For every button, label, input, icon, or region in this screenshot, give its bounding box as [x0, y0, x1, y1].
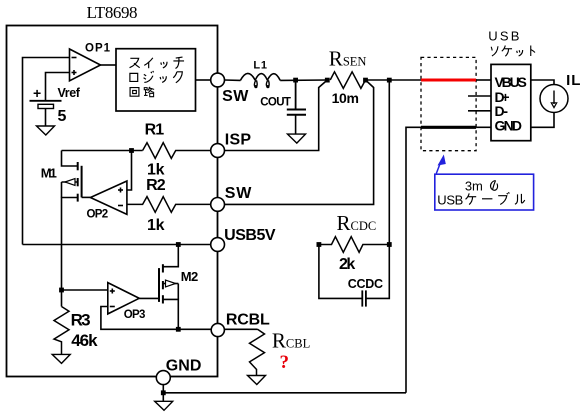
svg-text:2k: 2k [339, 256, 355, 273]
svg-text:CCDC: CCDC [348, 277, 383, 291]
capacitor COUT [287, 80, 306, 134]
svg-text:1k: 1k [147, 162, 165, 179]
svg-text:R3: R3 [71, 310, 91, 329]
label ソケット (drawn glyphs) [491, 46, 535, 57]
ground under COUT [288, 134, 306, 143]
black GND cable wire (thick) [421, 126, 476, 129]
blue callout box 3mのUSBケーブル [435, 174, 534, 210]
svg-text:?: ? [280, 352, 290, 373]
svg-text:IL: IL [566, 72, 580, 89]
resistor R1 [143, 143, 211, 159]
wire: OP1 plus input to Vref [46, 73, 70, 101]
op-amp OP2 (points left) [90, 181, 127, 214]
wire VBUS cable to socket [476, 79, 491, 81]
svg-text:OP2: OP2 [87, 209, 109, 221]
svg-text:Vref: Vref [58, 86, 81, 100]
svg-text:USB: USB [437, 193, 463, 208]
node SW (second) [211, 198, 225, 212]
svg-text:RCBL: RCBL [226, 312, 270, 329]
wire OP3 output to M2 gate [139, 297, 159, 299]
svg-text:R1: R1 [145, 122, 165, 139]
USB socket box [491, 64, 531, 140]
svg-text:M2: M2 [181, 269, 199, 284]
resistor RCBL (cable resistance) [250, 329, 265, 375]
svg-text:OP3: OP3 [124, 309, 146, 321]
wire D- stub [468, 110, 491, 112]
resistor RCDC network [317, 242, 322, 247]
inductor L1 [240, 73, 280, 86]
resistor R3 [54, 307, 69, 355]
wire: USB5V horizontal [23, 244, 211, 246]
wire top rail SW to L1 [225, 79, 241, 81]
wire OP1 output [101, 64, 117, 66]
transistor M1 [78, 162, 82, 202]
wire OP3 plus to R3 column [62, 289, 108, 291]
svg-text:M1: M1 [41, 165, 57, 180]
svg-text:GND: GND [166, 357, 202, 374]
svg-text:10m: 10m [332, 90, 359, 106]
wire OP3 minus feedback loop [101, 307, 211, 330]
wire SW2 sense: RSEN right down to SW [224, 80, 373, 204]
op-amp OP3 (points right) [108, 283, 139, 314]
current source IL [531, 80, 554, 85]
svg-text:L1: L1 [253, 59, 267, 71]
ground under R3 [52, 354, 70, 363]
svg-text:GND: GND [495, 118, 523, 134]
svg-text:5: 5 [58, 108, 67, 125]
svg-text:OP1: OP1 [85, 43, 111, 55]
svg-text:46k: 46k [71, 331, 98, 350]
resistor RSEN [325, 78, 330, 83]
wire D+ stub [468, 95, 491, 97]
wire R1 row: M1 drain to ISP [62, 150, 143, 152]
svg-text:3m: 3m [465, 178, 483, 193]
svg-text:1k: 1k [147, 217, 165, 234]
wire ISP sense: RSEN left down to ISP [224, 80, 327, 151]
svg-text:D-: D- [495, 103, 509, 119]
node ISP [211, 144, 225, 158]
cable GND wire up [406, 127, 421, 393]
svg-text:USB: USB [488, 28, 519, 43]
svg-text:+: + [33, 85, 41, 101]
wire box to SW node [196, 79, 211, 81]
text スイッチロジック回路 (drawn glyphs) [130, 57, 185, 97]
capacitor CCDC loop [319, 245, 362, 299]
ground under GND node [155, 401, 173, 410]
svg-text:COUT: COUT [260, 97, 291, 109]
blue callout arrow [436, 155, 446, 174]
svg-text:VBUS: VBUS [495, 74, 527, 90]
node COUT junction [293, 78, 298, 83]
IC boundary box LT8698 [7, 26, 218, 377]
svg-text:USB5V: USB5V [224, 227, 276, 244]
transistor M2 [159, 264, 163, 303]
ground under RCBL [248, 376, 266, 385]
ground under Vref [37, 126, 55, 135]
wire RSEN to cable rail [366, 79, 422, 81]
svg-text:SW: SW [225, 185, 252, 202]
battery Vref [30, 101, 62, 126]
node SW [211, 73, 225, 87]
svg-text:SW: SW [222, 88, 249, 105]
node GND [156, 371, 170, 385]
svg-text:ISP: ISP [225, 132, 252, 149]
wire GND cable to socket [476, 126, 491, 128]
wire OP2 plus to R1 junction [127, 151, 132, 191]
op-amp OP1 [70, 49, 101, 81]
junction M2 drain on USB5V [176, 242, 181, 247]
wire L1 to COUT junction to RSEN [280, 79, 327, 81]
node USB5V [211, 238, 225, 252]
wire RCBL node to cable resistor [224, 328, 257, 330]
red VBUS cable wire [421, 79, 476, 82]
svg-text:R2: R2 [146, 177, 166, 194]
node RCBL [211, 323, 224, 336]
wire: OP1 minus input to left feedback column [23, 58, 70, 245]
dashed cable box [421, 57, 476, 150]
GND node lower stub, junction and rail [162, 385, 164, 402]
switch logic box [116, 49, 196, 111]
svg-text:LT8698: LT8698 [87, 3, 138, 22]
node circles on IC edge [156, 73, 224, 385]
